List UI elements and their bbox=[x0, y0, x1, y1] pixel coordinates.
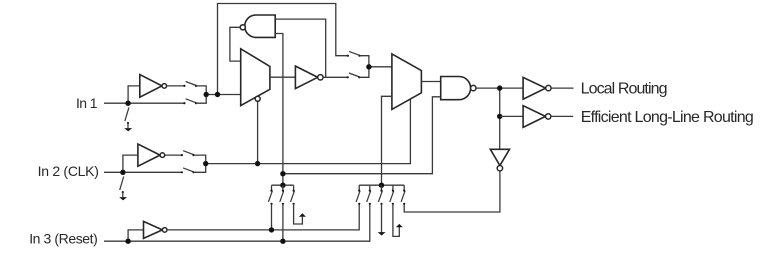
wire In1 inverter branch bbox=[128, 86, 140, 103]
up arrow bank2 bbox=[396, 224, 403, 227]
wire bank2 s4 hook bbox=[393, 204, 399, 237]
switch PIP upper In1 bbox=[186, 82, 197, 86]
wire merged to mux M2 bbox=[369, 66, 392, 68]
wire In3 straight net to bank2 switch bbox=[104, 204, 370, 241]
wire inverter U2 output bbox=[165, 154, 182, 156]
mux M1 select bubble bbox=[255, 96, 260, 101]
switch bank2 s4 bbox=[392, 185, 394, 190]
wire mux M2 lower input / bank2 feed bbox=[382, 96, 392, 185]
switch bank1 s1 bbox=[271, 185, 273, 190]
switch PIP lower pre-mux2 bbox=[349, 73, 360, 77]
wire In1 input bbox=[104, 102, 184, 104]
node In2 junction bbox=[120, 170, 125, 175]
wire mux M2 output bbox=[421, 81, 440, 83]
wire nand N1 output to mux M1 bbox=[230, 27, 241, 61]
switch bank2 s2 bbox=[369, 185, 371, 190]
node In2 merge bbox=[203, 161, 208, 166]
wire In1 merged to mux M1 bbox=[206, 94, 241, 96]
node CLK select junction bbox=[255, 161, 260, 166]
wire nand N2 output bbox=[476, 87, 523, 89]
wire In2 switch merge bbox=[194, 155, 206, 172]
svg-text:In 2 (CLK): In 2 (CLK) bbox=[38, 163, 99, 179]
wire buffer U6 output bbox=[551, 115, 573, 117]
switch bank2 s5 bbox=[403, 185, 405, 190]
switch bank1 s3 bbox=[293, 185, 295, 190]
wire latch feedback rail bbox=[218, 4, 348, 95]
node bank2 feed bbox=[379, 183, 384, 188]
node output bbox=[497, 85, 502, 90]
wire mux M1 output bbox=[270, 76, 296, 78]
inverter U2 (In2 buffer) bbox=[138, 144, 160, 166]
wire bank1 s3 hook bbox=[294, 204, 303, 224]
wire In2 inverter branch bbox=[123, 155, 138, 172]
node In1 merge bbox=[204, 92, 209, 97]
switch bank2 s1 bbox=[358, 185, 360, 190]
switch PIP upper In2 bbox=[183, 151, 194, 155]
svg-text:Local Routing: Local Routing bbox=[581, 81, 668, 98]
switch bank2 s3 bbox=[381, 185, 383, 190]
svg-text:In 1: In 1 bbox=[76, 95, 98, 111]
wire bank2 s3 stem bbox=[381, 204, 383, 233]
ground arrow In1 bbox=[124, 128, 132, 131]
wire buffer U5 output bbox=[551, 87, 573, 89]
buffer U5 local routing bbox=[523, 77, 546, 99]
inverter U3 (In3 buffer) bbox=[144, 221, 163, 238]
wire CLK net bbox=[206, 99, 411, 163]
down arrow bank2 bbox=[378, 232, 386, 236]
wire In3 inverted net to bank2 switch bbox=[167, 204, 359, 230]
node bank1 feed bbox=[280, 183, 285, 188]
inverter U4 (latch buffer) bbox=[295, 66, 317, 89]
wire mux M1 select bbox=[257, 101, 259, 163]
node In1 rail junction bbox=[215, 92, 220, 97]
inverter U1 (In1 buffer) bbox=[140, 75, 162, 98]
switch bank1 s2 bbox=[282, 185, 284, 190]
wire In2 input bbox=[104, 171, 182, 173]
wire In3 inverter branch bbox=[128, 230, 143, 241]
nand N1 (latch, faces left) bbox=[245, 15, 276, 37]
node bank1 s2 to In3 straight bbox=[280, 239, 285, 244]
svg-text:Efficient Long-Line Routing: Efficient Long-Line Routing bbox=[581, 109, 754, 126]
bank1 bus bbox=[272, 184, 294, 186]
node bank1 s1 to In3 inverted bbox=[269, 227, 274, 232]
wire nand N1 bottom input / bank1 feed bbox=[275, 34, 283, 186]
mux M2 bbox=[392, 54, 422, 110]
switch PIP lower In2 bbox=[183, 168, 194, 172]
pulldown switch In2 bbox=[120, 177, 124, 191]
inverter U7 (feedback, faces down) bbox=[490, 149, 509, 165]
buffer U6 long-line routing bbox=[523, 106, 545, 128]
svg-text:In 3 (Reset): In 3 (Reset) bbox=[29, 230, 98, 246]
node In1 junction bbox=[125, 101, 130, 106]
wire async net nand N2 bottom input bbox=[283, 97, 441, 174]
bank2 bus bbox=[359, 184, 404, 186]
wire output node vertical bbox=[499, 88, 501, 149]
wire feedback to bank2 switch 5 bbox=[404, 171, 500, 212]
nand N2 bbox=[441, 77, 471, 100]
node output 2 bbox=[497, 114, 502, 119]
mux M1 bbox=[241, 49, 270, 106]
wire nand N1 top input feedback bbox=[275, 19, 326, 77]
node In3 junction bbox=[125, 239, 130, 244]
wire inverter U4 output bbox=[323, 76, 348, 78]
wire to buffer U6 bbox=[500, 115, 523, 117]
ground arrow In2 bbox=[119, 197, 127, 200]
up arrow bank1 bbox=[299, 213, 306, 217]
node async junction bbox=[280, 171, 285, 176]
node pre-mux2 merge bbox=[366, 64, 371, 69]
wire inverter U1 output bbox=[167, 85, 185, 87]
pulldown switch In1 bbox=[125, 107, 129, 121]
switch PIP lower In1 bbox=[186, 99, 197, 103]
switch PIP upper pre-mux2 bbox=[349, 51, 360, 55]
wire In1 switch merge bbox=[196, 86, 206, 103]
wire pre-mux2 switch merge bbox=[359, 56, 369, 78]
